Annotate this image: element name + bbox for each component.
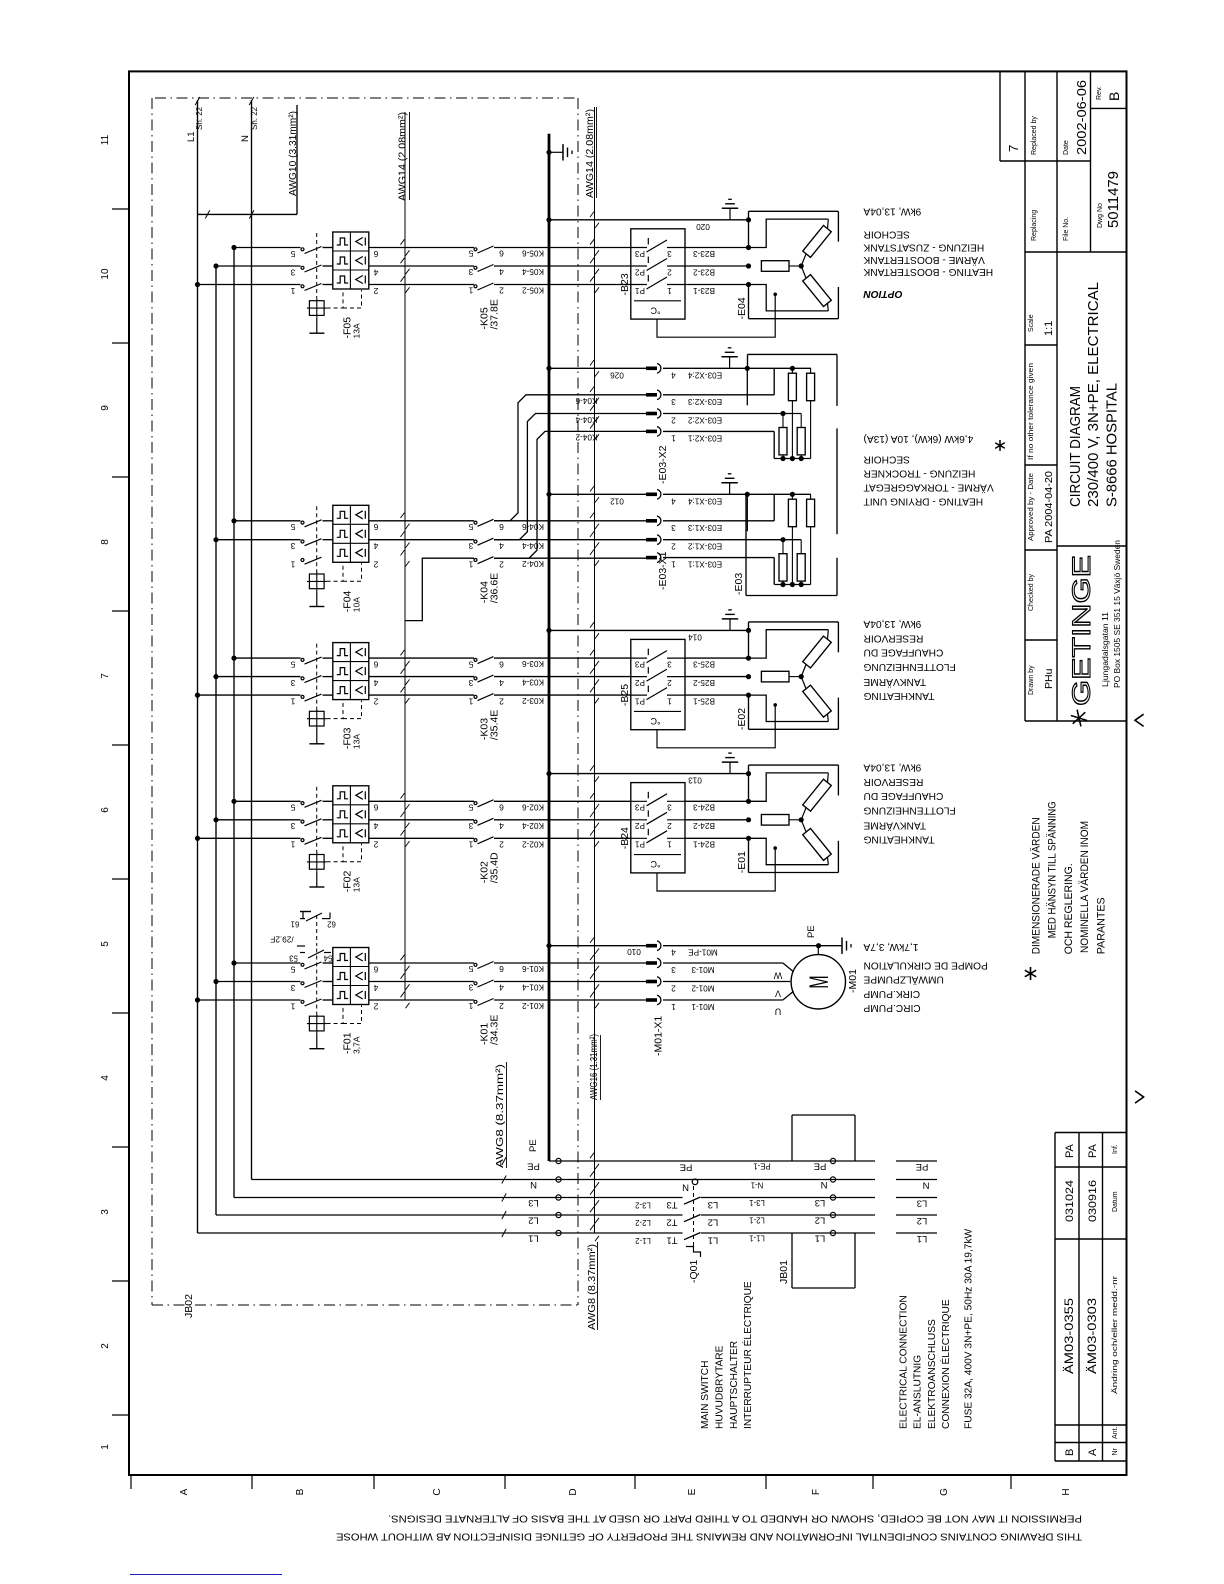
- heater E01 middle element: [761, 815, 789, 826]
- svg-text:Datum: Datum: [1112, 1191, 1119, 1212]
- svg-text:4,6kW (6kW), 10A (13A): 4,6kW (6kW), 10A (13A): [864, 433, 974, 444]
- ticks at x594: [590, 1153, 594, 1158]
- wire K05 branch phase 1 from L3: [234, 247, 301, 249]
- svg-text:Nr: Nr: [1112, 1447, 1119, 1455]
- fold mark chevron lower: [1135, 1091, 1144, 1103]
- svg-text:H: H: [1061, 1488, 1072, 1495]
- svg-text:13A: 13A: [352, 734, 362, 749]
- svg-text:ELEKTROANSCHLUSS: ELEKTROANSCHLUSS: [927, 1319, 938, 1429]
- svg-text:EL-ANSLUTNIG: EL-ANSLUTNIG: [913, 1355, 924, 1429]
- blue reference underline bottom left: [130, 1574, 282, 1576]
- svg-text:P3: P3: [635, 659, 645, 668]
- svg-text:2: 2: [373, 560, 378, 570]
- svg-text:3: 3: [468, 678, 473, 688]
- terminal strip M01-X1: [646, 944, 657, 948]
- heater E01 connection dots: [746, 771, 751, 776]
- svg-text:4: 4: [499, 983, 504, 993]
- svg-text:Sh. 22: Sh. 22: [195, 106, 204, 130]
- svg-text:P3: P3: [635, 803, 645, 812]
- wire K02 branch phase 3 from L1: [198, 837, 301, 839]
- svg-text:6: 6: [373, 522, 378, 532]
- svg-text:Replacing: Replacing: [1031, 210, 1038, 241]
- svg-text:2: 2: [499, 286, 504, 296]
- svg-text:L3: L3: [528, 1197, 539, 1208]
- auxiliary contact F01 53-54: [300, 952, 305, 954]
- svg-text:54: 54: [323, 954, 332, 963]
- heater E04 phase 3 feed path: [749, 285, 829, 311]
- svg-text:TANKHEATING: TANKHEATING: [863, 834, 934, 845]
- svg-text:K05-2: K05-2: [522, 286, 544, 295]
- svg-text:13A: 13A: [352, 323, 362, 338]
- svg-text:1: 1: [290, 560, 295, 570]
- svg-text:PA 2004-04-20: PA 2004-04-20: [1043, 471, 1055, 543]
- svg-text:6: 6: [499, 803, 504, 813]
- svg-text:3: 3: [667, 249, 672, 258]
- svg-text:3: 3: [671, 397, 676, 406]
- heater E03 group phase2 feed: [663, 539, 801, 541]
- svg-text:020: 020: [696, 222, 710, 231]
- wire L3 riser: [233, 248, 235, 1198]
- ground symbol at PE bus top: [546, 150, 551, 155]
- heater E03 enclosure: [748, 353, 838, 355]
- svg-text:L1: L1: [186, 131, 197, 142]
- svg-text:°C: °C: [650, 859, 661, 869]
- svg-text:Date: Date: [1063, 140, 1070, 155]
- svg-text:CHAUFFAGE DU: CHAUFFAGE DU: [864, 790, 944, 801]
- thermostat -B24 box: [631, 783, 685, 873]
- svg-text:5011479: 5011479: [1105, 171, 1122, 228]
- svg-text:012: 012: [610, 496, 624, 505]
- wire K03 branch phase 1 from L3: [234, 657, 301, 659]
- svg-text:1: 1: [290, 1001, 295, 1011]
- svg-text:1: 1: [468, 840, 473, 850]
- svg-text:1: 1: [667, 840, 672, 849]
- svg-text:M01-PE: M01-PE: [688, 948, 718, 957]
- svg-text:9kW, 13,04A: 9kW, 13,04A: [863, 618, 921, 629]
- svg-text:-E02: -E02: [736, 708, 748, 730]
- heater E03 group upper elements: [788, 373, 796, 401]
- svg-text:TANKVÄRME: TANKVÄRME: [863, 676, 926, 688]
- svg-text:P1: P1: [635, 696, 645, 705]
- svg-text:SECHOIR: SECHOIR: [864, 453, 910, 464]
- svg-text:MAIN SWITCH: MAIN SWITCH: [700, 1361, 711, 1429]
- svg-text:RESERVOIR: RESERVOIR: [864, 776, 924, 787]
- svg-text:P1: P1: [635, 286, 645, 295]
- svg-text:B24-3: B24-3: [693, 803, 715, 812]
- breaker -F01: [333, 948, 369, 1005]
- PE distribution bus: [548, 134, 551, 1161]
- svg-text:K01-2: K01-2: [522, 1001, 544, 1010]
- svg-text:P2: P2: [635, 821, 645, 830]
- svg-text:NOMINELLA VÄRDEN INOM: NOMINELLA VÄRDEN INOM: [1079, 821, 1091, 953]
- svg-text:-E03: -E03: [733, 573, 745, 595]
- svg-text:2: 2: [499, 1001, 504, 1011]
- ticks K05 branch: [401, 239, 405, 244]
- svg-text:3: 3: [667, 803, 672, 812]
- svg-text:C: C: [432, 1488, 443, 1495]
- main switch Q01 neutral link circle: [692, 1179, 698, 1185]
- svg-text:°C: °C: [650, 716, 661, 726]
- terminal strip E03-X2: [646, 366, 657, 370]
- ground symbol on wire 020: [729, 208, 731, 220]
- svg-text:THIS DRAWING CONTAINS CONFIDEN: THIS DRAWING CONTAINS CONFIDENTIAL INFOR…: [336, 1530, 1082, 1541]
- svg-text:K02-2: K02-2: [522, 839, 544, 848]
- wire vertical feeder x405: [404, 112, 406, 1000]
- svg-text:M01-2: M01-2: [691, 984, 715, 993]
- svg-text:-M01: -M01: [847, 969, 859, 993]
- GETINGE logo snowflake: [1071, 710, 1087, 727]
- svg-text:K02-6: K02-6: [522, 802, 544, 811]
- heater E02 star point: [799, 674, 804, 679]
- svg-text:K04-2: K04-2: [575, 433, 597, 442]
- svg-text:230/400 V, 3N+PE, ELECTRICAL: 230/400 V, 3N+PE, ELECTRICAL: [1085, 282, 1102, 507]
- svg-text:N: N: [530, 1179, 537, 1190]
- svg-text:N: N: [820, 1179, 827, 1190]
- heater E01 enclosure: [749, 764, 839, 766]
- svg-text:HEIZUNG - TROCKNER: HEIZUNG - TROCKNER: [864, 467, 976, 478]
- wires B24 to E01: [685, 800, 749, 802]
- svg-text:L1: L1: [708, 1235, 719, 1246]
- supply stubs right: [896, 1160, 937, 1162]
- contactor -K01 contacts: [474, 963, 477, 966]
- svg-text:L1: L1: [528, 1233, 539, 1244]
- auxiliary contact F01 61-62: [300, 918, 305, 920]
- svg-text:7: 7: [1006, 145, 1021, 152]
- svg-text:JB01: JB01: [778, 1260, 790, 1284]
- svg-text:3: 3: [671, 523, 676, 532]
- contactor -K05 contacts: [474, 248, 477, 251]
- svg-text:Ljungadalsgatan 11: Ljungadalsgatan 11: [1101, 611, 1110, 687]
- svg-text:K03-6: K03-6: [522, 659, 544, 668]
- frame column ticks left edge: [112, 209, 129, 1415]
- svg-text:Sh. 22: Sh. 22: [250, 106, 259, 130]
- svg-text:013: 013: [688, 776, 702, 785]
- wire K01 branch phase 3 from L1: [198, 999, 301, 1001]
- svg-text:4: 4: [373, 678, 378, 688]
- svg-text:3: 3: [100, 1209, 111, 1215]
- svg-text:030916: 030916: [1087, 1180, 1099, 1222]
- svg-text:6: 6: [373, 964, 378, 974]
- terminal strip E03-X1: [646, 492, 657, 496]
- PE bus bend into PE row: [549, 1160, 875, 1162]
- contactor -K02 contacts: [474, 802, 477, 805]
- svg-text:5: 5: [290, 803, 295, 813]
- svg-text:L3: L3: [815, 1197, 826, 1208]
- svg-text:Ändring och/eller medd.-nr: Ändring och/eller medd.-nr: [1111, 1275, 1119, 1394]
- breaker -F04: [333, 505, 369, 562]
- svg-text:-B24: -B24: [619, 827, 631, 849]
- svg-text:B25-3: B25-3: [693, 659, 715, 668]
- svg-text:T2: T2: [666, 1217, 677, 1228]
- svg-text:PHu: PHu: [1043, 668, 1055, 689]
- heater E01 phase 3 feed path: [749, 838, 829, 864]
- ground symbol on wire 026: [729, 357, 731, 369]
- svg-text:5: 5: [468, 964, 473, 974]
- svg-text:JB02: JB02: [183, 1294, 195, 1318]
- thermostat -B23 box: [631, 229, 685, 319]
- svg-text:5: 5: [290, 964, 295, 974]
- svg-text:L1: L1: [917, 1233, 928, 1244]
- svg-text:HEATING - DRYING UNIT: HEATING - DRYING UNIT: [864, 495, 984, 506]
- svg-text:2: 2: [671, 416, 676, 425]
- svg-text:-E04: -E04: [736, 297, 748, 319]
- svg-text:4: 4: [373, 267, 378, 277]
- svg-text:2: 2: [499, 840, 504, 850]
- svg-text:OPTION: OPTION: [863, 288, 903, 299]
- svg-text:°C: °C: [650, 305, 661, 315]
- bus terminals at JB02 exit: [556, 1158, 561, 1163]
- svg-text:-E03-X2: -E03-X2: [657, 445, 669, 484]
- svg-text:6: 6: [499, 659, 504, 669]
- heater E04 star point: [799, 263, 804, 268]
- svg-text:1: 1: [290, 840, 295, 850]
- svg-text:N: N: [240, 135, 251, 142]
- svg-text:INTERRUPTEUR ÉLECTRIQUE: INTERRUPTEUR ÉLECTRIQUE: [741, 1281, 754, 1429]
- wire K02 branch phase 1 from L3: [234, 800, 301, 802]
- thermostat -B23 capillary line to sensor: [657, 294, 775, 337]
- svg-text:N: N: [682, 1182, 689, 1193]
- svg-text:L2: L2: [917, 1215, 928, 1226]
- svg-text:6: 6: [499, 964, 504, 974]
- wire K04 branch phase 1 from L3: [234, 520, 301, 522]
- svg-text:E: E: [687, 1488, 698, 1495]
- svg-text:FUSE 32A, 400V 3N+PE, 50Hz 30A: FUSE 32A, 400V 3N+PE, 50Hz 30A 19,7kW: [964, 1228, 975, 1429]
- wire K01 branch phase 2 from L2: [216, 981, 301, 983]
- wire K01 branch phase 1 from L3: [234, 962, 301, 964]
- svg-text:CIRCUIT DIAGRAM: CIRCUIT DIAGRAM: [1067, 386, 1084, 507]
- svg-text:PE: PE: [916, 1161, 929, 1172]
- svg-text:K04-6: K04-6: [522, 522, 544, 531]
- wire top jumper to AWG10 cable: [198, 213, 298, 215]
- svg-text:AWG8 (8.37mm²): AWG8 (8.37mm²): [495, 1064, 506, 1168]
- svg-text:1: 1: [671, 560, 676, 569]
- junction box JB02 boundary: [155, 97, 578, 99]
- svg-text:E03-X1:1: E03-X1:1: [687, 560, 722, 569]
- thermostat -B23 contacts: [631, 247, 647, 249]
- svg-text:AWG10 (3.31mm²): AWG10 (3.31mm²): [288, 111, 299, 196]
- svg-text:PE-1: PE-1: [753, 1162, 770, 1171]
- ticks on E03 wires: [590, 360, 594, 365]
- svg-text:E03-X2:1: E03-X2:1: [687, 433, 722, 442]
- heater E04 upper element: [803, 225, 832, 257]
- svg-text:ÄM03-0303: ÄM03-0303: [1085, 1298, 1099, 1374]
- breaker -F05 pole contacts: [301, 248, 304, 251]
- svg-text:3: 3: [290, 678, 295, 688]
- svg-text:-B23: -B23: [619, 273, 631, 295]
- svg-text:PE: PE: [528, 1139, 539, 1152]
- ticks K02 branch: [401, 793, 405, 798]
- svg-text:HEATING - BOOSTERTANK: HEATING - BOOSTERTANK: [863, 266, 993, 277]
- svg-text:CIRC.PUMP: CIRC.PUMP: [863, 1002, 920, 1013]
- wire 012 PE bus to E03-X1: [549, 493, 646, 495]
- svg-text:T3: T3: [666, 1199, 677, 1210]
- svg-text:6: 6: [373, 803, 378, 813]
- breaker -F01 pole contacts: [301, 963, 304, 966]
- ticks K03 branch: [401, 650, 405, 655]
- svg-text:UMWÄLZPUMPE: UMWÄLZPUMPE: [863, 974, 944, 986]
- frame row ticks bottom edge: [131, 1475, 1011, 1489]
- svg-text:5: 5: [290, 522, 295, 532]
- heater E02 connection dots: [746, 628, 751, 633]
- svg-text:9kW, 13,04A: 9kW, 13,04A: [863, 761, 921, 772]
- heater E04 middle element: [761, 261, 789, 272]
- svg-text:6: 6: [100, 807, 111, 813]
- heater E03 group bottom bus: [663, 430, 774, 432]
- contactor -K04 contacts: [474, 521, 477, 524]
- svg-text:E03-X2:2: E03-X2:2: [687, 416, 722, 425]
- svg-text:2: 2: [671, 542, 676, 551]
- svg-text:M01-3: M01-3: [691, 965, 715, 974]
- svg-text:CHAUFFAGE DU: CHAUFFAGE DU: [864, 647, 944, 658]
- ground symbol on wire 012: [729, 483, 731, 495]
- svg-text:F: F: [811, 1489, 822, 1495]
- thermostat -B25 capillary line to sensor: [657, 705, 775, 748]
- svg-text:1,7kW, 3,7A: 1,7kW, 3,7A: [863, 941, 918, 952]
- motor M01 circle: [791, 955, 845, 1009]
- svg-text:-Q01: -Q01: [688, 1259, 700, 1283]
- heater E01 upper element: [803, 779, 832, 811]
- ticks K04 branch: [401, 513, 405, 518]
- svg-text:U: U: [775, 1006, 782, 1016]
- svg-text:9: 9: [100, 405, 111, 411]
- svg-text:3: 3: [468, 983, 473, 993]
- svg-text:L1-2: L1-2: [635, 1236, 651, 1245]
- svg-text:61: 61: [291, 920, 300, 929]
- ticks at AWG8: [502, 1157, 506, 1165]
- svg-text:026: 026: [610, 370, 624, 379]
- svg-text:K05-6: K05-6: [522, 249, 544, 258]
- svg-text:PARANTES: PARANTES: [1096, 897, 1108, 954]
- svg-text:/34.3E: /34.3E: [489, 1015, 501, 1045]
- svg-text:CONNEXION ÉLECTRIQUE: CONNEXION ÉLECTRIQUE: [939, 1299, 952, 1429]
- wire 020 PE to heater E04: [549, 219, 749, 221]
- drawing frame border: [129, 71, 1127, 1475]
- svg-text:E03-X2:3: E03-X2:3: [687, 397, 722, 406]
- svg-text:PE: PE: [806, 925, 817, 938]
- heater E03 group bottom bus: [663, 557, 774, 559]
- wires B23 to E04: [685, 247, 749, 249]
- svg-text:SECHOIR: SECHOIR: [864, 229, 910, 240]
- svg-text:1: 1: [290, 697, 295, 707]
- main switch Q01 contacts: [684, 1197, 701, 1204]
- wires B25 to E02: [685, 657, 749, 659]
- svg-text:P2: P2: [635, 267, 645, 276]
- svg-text:1: 1: [468, 696, 473, 706]
- wire 014 PE to heater E02: [549, 629, 749, 631]
- svg-text:A: A: [179, 1488, 190, 1495]
- svg-text:AWG14 (2.08mm²): AWG14 (2.08mm²): [398, 112, 409, 201]
- svg-text:B25-2: B25-2: [693, 678, 715, 687]
- svg-text:K03-2: K03-2: [522, 696, 544, 705]
- svg-text:L2-2: L2-2: [635, 1218, 651, 1227]
- svg-text:B24-2: B24-2: [693, 821, 715, 830]
- svg-text:E03-X2:4: E03-X2:4: [687, 370, 722, 379]
- svg-text:/29.2F: /29.2F: [270, 935, 293, 944]
- heater E03 group phase3 riser: [663, 394, 774, 396]
- svg-text:Ant.: Ant.: [1112, 1426, 1119, 1439]
- svg-text:AWG8 (8.37mm²): AWG8 (8.37mm²): [587, 1244, 598, 1330]
- wire K05 branch phase 3 from L1: [198, 284, 301, 286]
- svg-text:5: 5: [468, 249, 473, 259]
- svg-text:5: 5: [468, 522, 473, 532]
- svg-text:HUVUDBRYTARE: HUVUDBRYTARE: [715, 1345, 726, 1429]
- svg-text:OCH REGLERING.: OCH REGLERING.: [1063, 863, 1075, 954]
- wire K03 branch phase 2 from L2: [216, 676, 301, 678]
- svg-text:4: 4: [671, 370, 676, 379]
- svg-text:N-1: N-1: [751, 1181, 764, 1190]
- svg-text:1:1: 1:1: [1043, 321, 1055, 336]
- heater E04 lower element: [803, 275, 832, 307]
- svg-text:3: 3: [671, 965, 676, 974]
- svg-text:2: 2: [667, 267, 672, 276]
- svg-text:E03-X1:4: E03-X1:4: [687, 496, 722, 505]
- svg-text:8: 8: [100, 539, 111, 545]
- heater E04 phase 1 feed path: [749, 219, 829, 247]
- svg-text:B: B: [1064, 1449, 1076, 1456]
- svg-text:-E01: -E01: [736, 851, 748, 873]
- svg-text:B25-1: B25-1: [693, 696, 715, 705]
- wires K01 to M01-X1: [494, 962, 646, 964]
- svg-text:3: 3: [667, 659, 672, 668]
- svg-text:Approved by - Date: Approved by - Date: [1028, 473, 1035, 541]
- svg-text:7: 7: [100, 673, 111, 679]
- wire L2 riser: [215, 266, 217, 1215]
- heater E03 group phase2 feed: [663, 413, 801, 415]
- svg-text:Inf.: Inf.: [1112, 1144, 1119, 1154]
- svg-text:3: 3: [290, 541, 295, 551]
- svg-text:HEIZUNG - ZUSATSTANK: HEIZUNG - ZUSATSTANK: [863, 242, 984, 253]
- thermostat -B25 contacts: [631, 657, 647, 659]
- svg-text:B23-3: B23-3: [693, 249, 715, 258]
- svg-text:PE: PE: [814, 1161, 827, 1172]
- svg-text:P3: P3: [635, 249, 645, 258]
- heater E03 group top bus: [663, 367, 811, 369]
- svg-text:/35.4E: /35.4E: [489, 710, 501, 740]
- wire 026 PE bus to E03-X2: [549, 367, 646, 369]
- breaker -F05: [333, 232, 369, 289]
- svg-text:3: 3: [290, 983, 295, 993]
- thermostat -B24 contacts: [631, 800, 647, 802]
- svg-text:AWG14 (2.08mm²): AWG14 (2.08mm²): [585, 109, 596, 198]
- svg-text:E03-X1:3: E03-X1:3: [687, 523, 722, 532]
- svg-text:014: 014: [688, 632, 702, 641]
- svg-text:4: 4: [499, 541, 504, 551]
- revision table grid: [1055, 1133, 1127, 1462]
- svg-text:Rev.: Rev.: [1096, 86, 1103, 100]
- svg-text:ÄM03-0355: ÄM03-0355: [1062, 1298, 1076, 1374]
- heater E03 group top bus: [663, 493, 811, 495]
- svg-text:MED HÄNSYN TILL SPÄNNING: MED HÄNSYN TILL SPÄNNING: [1047, 801, 1059, 938]
- heater E02 phase 3 feed path: [749, 695, 829, 721]
- svg-text:3: 3: [468, 821, 473, 831]
- svg-text:TANKVÄRME: TANKVÄRME: [863, 820, 926, 832]
- svg-text:E03-X1:2: E03-X1:2: [687, 542, 722, 551]
- asterisk note DIMENSIONERADE VARDEN block: [1030, 801, 1107, 954]
- thermostat -B25 box: [631, 639, 685, 729]
- svg-text:3: 3: [468, 541, 473, 551]
- svg-text:6: 6: [499, 249, 504, 259]
- svg-text:CIRK.PUMP: CIRK.PUMP: [863, 988, 920, 999]
- wire K05 branch phase 2 from L2: [216, 265, 301, 267]
- svg-text:62: 62: [327, 920, 336, 929]
- svg-text:3: 3: [468, 267, 473, 277]
- svg-text:P1: P1: [635, 840, 645, 849]
- svg-text:1: 1: [468, 1001, 473, 1011]
- svg-text:L2-1: L2-1: [749, 1216, 765, 1225]
- breaker -F04 pole contacts: [301, 521, 304, 524]
- contactor K04 output risers to E03-X2: [494, 395, 646, 521]
- breaker -F03 pole contacts: [301, 658, 304, 661]
